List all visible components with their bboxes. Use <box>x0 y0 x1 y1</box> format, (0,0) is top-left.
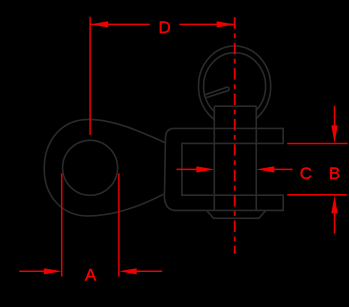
dim A left extension line <box>61 174 63 277</box>
nut under jaw <box>207 211 266 219</box>
dim B top arrow <box>334 106 336 127</box>
svg-text:B: B <box>329 164 340 183</box>
dim B bottom extension line <box>287 194 347 196</box>
hidden line mask over bolt head block <box>215 107 255 128</box>
bolt head block top edge <box>214 105 256 107</box>
dim D extension line <box>89 17 91 135</box>
eye hole <box>63 140 118 195</box>
dim C right arrow <box>274 168 293 170</box>
dim D right arrowhead <box>217 21 235 27</box>
dim A right extension line <box>118 174 120 277</box>
bolt shank left side <box>213 106 215 210</box>
ring inner ellipse <box>204 53 266 120</box>
jaw body outline with slot <box>164 128 283 210</box>
dim D line right segment <box>179 23 234 25</box>
ring bar detail <box>204 87 230 98</box>
svg-text:C: C <box>300 164 312 183</box>
dim B bottom arrow <box>334 213 336 234</box>
eye outline <box>44 119 165 216</box>
dim B top extension line <box>287 143 348 145</box>
dim A left arrow <box>19 270 45 272</box>
svg-text:D: D <box>159 18 171 37</box>
dim C left arrow <box>177 168 198 170</box>
dim D left arrowhead <box>90 21 108 27</box>
dim A right arrow <box>135 270 162 272</box>
centerline <box>234 17 236 254</box>
svg-text:A: A <box>85 266 97 285</box>
bolt shank right side <box>255 106 257 210</box>
dim D line left segment <box>90 23 150 25</box>
ring outer ellipse <box>199 46 271 127</box>
